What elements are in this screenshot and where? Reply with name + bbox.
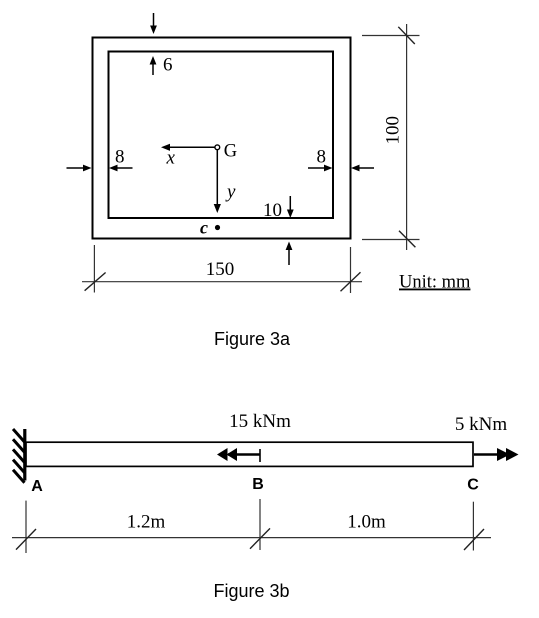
tick at A	[16, 529, 36, 550]
tick at C	[464, 529, 484, 550]
extension at A	[25, 501, 27, 553]
y axis arrow	[214, 150, 221, 213]
svg-text:8: 8	[317, 147, 327, 168]
svg-text:1.0m: 1.0m	[347, 512, 386, 533]
svg-text:B: B	[252, 476, 264, 493]
svg-text:c: c	[200, 218, 208, 238]
svg-text:150: 150	[206, 259, 235, 280]
x axis arrow	[161, 144, 215, 151]
outer rectangle of hollow section	[93, 38, 351, 239]
150 dimension: right extension line	[350, 247, 352, 293]
svg-text:x: x	[166, 148, 176, 169]
svg-text:5 kNm: 5 kNm	[455, 414, 507, 435]
150 dimension: left extension line	[93, 245, 95, 293]
bottom thickness arrow (down, inside)	[287, 196, 294, 218]
svg-text:Unit: mm: Unit: mm	[399, 273, 471, 293]
svg-text:1.2m: 1.2m	[127, 512, 166, 533]
centroid G circle	[215, 145, 220, 150]
100 dimension bottom tick	[399, 231, 415, 248]
svg-text:A: A	[31, 478, 43, 495]
left wall arrows	[67, 165, 92, 172]
top thickness arrow (down, outside)	[150, 13, 157, 34]
svg-text:G: G	[224, 142, 237, 162]
svg-text:y: y	[225, 182, 236, 203]
beam ABC	[26, 442, 473, 466]
right wall arrows	[308, 165, 333, 172]
svg-text:10: 10	[263, 200, 282, 221]
svg-text:100: 100	[382, 116, 403, 145]
moment at B (double arrow left with tick)	[217, 448, 260, 462]
extension at C	[472, 502, 474, 551]
svg-text:Figure 3b: Figure 3b	[213, 581, 289, 601]
100 dimension line	[406, 24, 408, 250]
top thickness arrow (up, inside) pointing at inner top edge	[150, 56, 157, 75]
tick at B	[250, 528, 270, 548]
extension at B	[259, 499, 261, 550]
svg-text:6: 6	[163, 55, 173, 76]
bottom thickness arrow (up, outside)	[286, 242, 293, 266]
150 dimension left tick	[85, 273, 106, 291]
100 dimension: bottom extension line	[362, 239, 420, 241]
fixed support wall bar at A	[23, 429, 26, 481]
100 dimension: top extension line	[362, 35, 420, 37]
fixed support hatching	[13, 429, 25, 483]
moment at C (double arrow right)	[474, 448, 519, 461]
svg-text:Figure 3a: Figure 3a	[214, 329, 291, 349]
point c dot	[215, 225, 220, 230]
svg-text:15 kNm: 15 kNm	[229, 411, 291, 432]
beam dimension line	[12, 537, 491, 539]
150 dimension line	[82, 281, 362, 283]
svg-text:C: C	[467, 477, 479, 494]
100 dimension top tick	[398, 27, 415, 44]
inner rectangle of hollow section	[109, 52, 334, 219]
svg-text:8: 8	[115, 147, 125, 168]
150 dimension right tick	[341, 272, 361, 291]
